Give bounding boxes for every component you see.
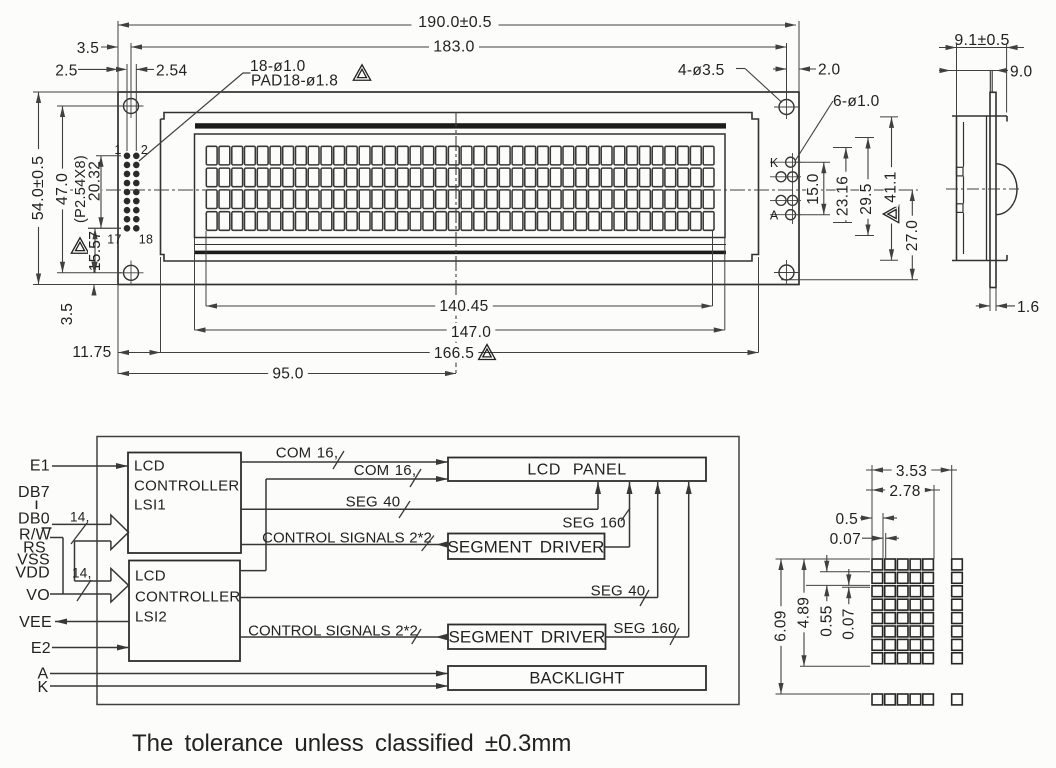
svg-text:6-ø1.0: 6-ø1.0 bbox=[833, 93, 880, 110]
svg-text:47.0: 47.0 bbox=[54, 173, 71, 205]
svg-text:CONTROL SIGNALS 2*2: CONTROL SIGNALS 2*2 bbox=[248, 622, 418, 639]
dim 183.0 bbox=[131, 46, 787, 48]
svg-text:LSI2: LSI2 bbox=[135, 608, 167, 625]
svg-text:DB7: DB7 bbox=[18, 484, 50, 501]
BACKLIGHT box bbox=[448, 666, 706, 690]
dim 2.54 bbox=[136, 67, 147, 72]
wire VEE bbox=[55, 621, 129, 623]
svg-text:29.5: 29.5 bbox=[858, 183, 875, 214]
dim 0.07 left bbox=[806, 584, 870, 586]
vertical centerline bbox=[455, 112, 457, 374]
svg-text:E2: E2 bbox=[31, 640, 51, 657]
bottom dark polarizer band bbox=[195, 244, 726, 246]
svg-text:K: K bbox=[38, 679, 49, 696]
svg-text:3.5: 3.5 bbox=[59, 303, 76, 325]
dim 41.1 with warning triangle bbox=[880, 116, 898, 118]
metal bezel outline with notched corners bbox=[161, 113, 759, 262]
dim 54.0+-0.5 bbox=[38, 92, 40, 285]
bus connector between LSI1 and LSI2 bbox=[74, 541, 76, 581]
side view centerline bbox=[946, 188, 1019, 190]
wire A bbox=[50, 673, 448, 675]
dim 47.0 bbox=[62, 106, 64, 273]
40x4 character grid bbox=[206, 146, 714, 230]
LCD controller LSI2 box bbox=[129, 561, 240, 662]
svg-text:18: 18 bbox=[139, 233, 154, 247]
svg-text:SEGMENT DRIVER: SEGMENT DRIVER bbox=[447, 538, 604, 557]
LCD PANEL box bbox=[448, 458, 706, 482]
dot matrix bottom cursor row bbox=[872, 559, 962, 705]
svg-text:DB0: DB0 bbox=[18, 511, 50, 528]
dim 23.16 bbox=[833, 147, 852, 149]
svg-text:17: 17 bbox=[107, 233, 122, 247]
wire SEG160 from segment driver 2 bbox=[606, 636, 689, 638]
svg-text:23.16: 23.16 bbox=[835, 176, 852, 216]
wire SEG160 from segment driver 1 bbox=[605, 546, 630, 548]
svg-text:LCD: LCD bbox=[134, 458, 165, 475]
svg-text:0.07: 0.07 bbox=[830, 531, 861, 548]
wire E1 bbox=[52, 465, 128, 467]
svg-text:0.5: 0.5 bbox=[836, 511, 858, 528]
svg-text:E1: E1 bbox=[30, 457, 50, 474]
dim 6.09 bbox=[776, 558, 871, 560]
dim 95.0 bbox=[118, 373, 456, 375]
svg-text:VDD: VDD bbox=[15, 565, 50, 582]
dim 15.0 bbox=[797, 161, 830, 163]
svg-text:1.6: 1.6 bbox=[1017, 299, 1039, 316]
side view backlight bump bbox=[996, 164, 1017, 215]
svg-text:2.5: 2.5 bbox=[55, 63, 77, 80]
leader line to pad label bbox=[139, 73, 251, 161]
PCB outline front view bbox=[118, 92, 799, 285]
svg-text:SEG 160: SEG 160 bbox=[613, 620, 676, 637]
svg-text:14,: 14, bbox=[70, 510, 90, 525]
svg-text:4-ø3.5: 4-ø3.5 bbox=[678, 62, 725, 79]
side view bezel flange bottom bbox=[952, 260, 1007, 262]
side view bezel front face with cutouts bbox=[956, 116, 958, 261]
svg-text:9.0: 9.0 bbox=[1010, 64, 1033, 81]
wire CONTROL SIGNALS 2*2 to segment driver 1 bbox=[241, 544, 448, 546]
svg-text:4.89: 4.89 bbox=[796, 597, 813, 628]
block diagram border bbox=[97, 437, 739, 705]
svg-text:15.0: 15.0 bbox=[805, 173, 822, 204]
top dark polarizer band bbox=[195, 123, 726, 128]
svg-text:K: K bbox=[770, 156, 779, 170]
dim 11.75 and 166.5 bbox=[118, 352, 759, 354]
bottom thick dark line bbox=[195, 251, 726, 255]
mounting hole top-right bbox=[779, 100, 794, 115]
mounting hole bottom-left bbox=[124, 265, 139, 280]
svg-text:140.45: 140.45 bbox=[439, 298, 488, 315]
wire K bbox=[50, 685, 448, 687]
side view pin stub bbox=[989, 71, 991, 93]
dim 2.78 bbox=[866, 489, 940, 491]
side view bezel back face bbox=[986, 116, 988, 261]
dim 1.6 bbox=[989, 288, 991, 312]
backlight pins K/A group bbox=[786, 157, 796, 167]
bus arrow 14 into LSI1 bbox=[52, 523, 111, 525]
svg-text:190.0±0.5: 190.0±0.5 bbox=[418, 14, 492, 31]
wire E2 bbox=[52, 647, 129, 649]
svg-text:9.1±0.5: 9.1±0.5 bbox=[954, 32, 1009, 49]
svg-text:0.55: 0.55 bbox=[818, 605, 835, 636]
svg-text:54.0±0.5: 54.0±0.5 bbox=[30, 156, 47, 221]
svg-text:VEE: VEE bbox=[19, 614, 52, 631]
svg-text:SEG 40: SEG 40 bbox=[591, 582, 646, 599]
mounting hole top-left bbox=[124, 99, 139, 114]
bus arrow 14 into LSI2 bbox=[75, 580, 111, 582]
dim 2.0 bbox=[773, 68, 787, 70]
svg-text:COM 16,: COM 16, bbox=[354, 462, 416, 479]
svg-text:2.54: 2.54 bbox=[156, 63, 187, 80]
warning triangle left bbox=[71, 238, 88, 254]
dim 4.89 bbox=[800, 665, 870, 667]
dim 140.45 bbox=[206, 305, 713, 307]
svg-text:CONTROLLER: CONTROLLER bbox=[134, 477, 240, 494]
18-pin header pads (2 cols x 9 rows) bbox=[124, 153, 140, 232]
svg-text:1: 1 bbox=[114, 143, 121, 157]
svg-text:COM 16,: COM 16, bbox=[276, 445, 338, 462]
display window opening bbox=[195, 134, 726, 238]
svg-text:LCD PANEL: LCD PANEL bbox=[527, 462, 626, 479]
dim 3.5 bottom-left bbox=[93, 262, 95, 273]
svg-text:14,: 14, bbox=[72, 566, 92, 581]
svg-text:3.5: 3.5 bbox=[77, 40, 99, 57]
svg-text:3.53: 3.53 bbox=[896, 463, 927, 480]
svg-text:SEGMENT DRIVER: SEGMENT DRIVER bbox=[448, 628, 605, 647]
mounting hole bottom-right bbox=[779, 265, 794, 280]
label (P2.54X8) bbox=[74, 149, 88, 228]
svg-text:CONTROLLER: CONTROLLER bbox=[135, 588, 241, 605]
svg-text:2.78: 2.78 bbox=[889, 483, 920, 500]
side view PCB edge bbox=[990, 92, 996, 287]
svg-text:2.0: 2.0 bbox=[818, 62, 841, 79]
svg-text:95.0: 95.0 bbox=[272, 366, 303, 383]
svg-text:SEG 160: SEG 160 bbox=[562, 515, 625, 532]
dim 147.0 bbox=[195, 329, 725, 331]
svg-text:166.5: 166.5 bbox=[434, 345, 474, 362]
svg-text:A: A bbox=[770, 209, 779, 223]
dim 190.0+-0.5 bbox=[118, 24, 796, 26]
wire SEG40 from LSI1 bbox=[241, 508, 598, 510]
dim 3.53 bbox=[866, 469, 957, 471]
wire R/W riser bbox=[50, 537, 63, 539]
SEGMENT DRIVER 2 box bbox=[448, 625, 606, 650]
svg-text:41.1: 41.1 bbox=[883, 171, 900, 202]
dim 29.5 bbox=[855, 137, 874, 139]
wire SEG40 from LSI2 bbox=[240, 597, 658, 599]
svg-text:147.0: 147.0 bbox=[451, 324, 491, 341]
dim 9.0 bbox=[939, 70, 1008, 72]
svg-text:LCD: LCD bbox=[135, 567, 166, 584]
side view bezel flange top bbox=[952, 115, 1007, 117]
svg-text:20.32: 20.32 bbox=[87, 161, 104, 201]
svg-text:PAD18-ø1.8: PAD18-ø1.8 bbox=[251, 73, 338, 90]
svg-text:The tolerance unless classifie: The tolerance unless classified ±0.3mm bbox=[132, 730, 571, 757]
side view glass inner lines bbox=[963, 122, 965, 167]
svg-text:LSI1: LSI1 bbox=[134, 496, 166, 513]
svg-text:SEG 40: SEG 40 bbox=[346, 494, 401, 511]
svg-text:CONTROL SIGNALS 2*2: CONTROL SIGNALS 2*2 bbox=[262, 530, 432, 547]
svg-text:183.0: 183.0 bbox=[433, 39, 475, 56]
svg-text:0.07: 0.07 bbox=[840, 608, 857, 639]
svg-text:6.09: 6.09 bbox=[773, 610, 790, 641]
svg-text:VO: VO bbox=[26, 587, 50, 604]
svg-text:BACKLIGHT: BACKLIGHT bbox=[529, 670, 624, 688]
LCD controller LSI1 box bbox=[128, 453, 241, 554]
wire COM16 from LSI2 to LCD panel bbox=[240, 570, 266, 572]
dim 27.0 bbox=[781, 279, 918, 281]
wire COM16 from LSI1 to LCD panel bbox=[241, 461, 448, 463]
dim 0.55 bbox=[820, 571, 870, 573]
horizontal centerline bbox=[58, 189, 918, 191]
dim 20.32 bbox=[88, 158, 103, 204]
svg-text:11.75: 11.75 bbox=[72, 344, 111, 361]
dim 15.57 bbox=[88, 231, 103, 270]
svg-text:27.0: 27.0 bbox=[904, 220, 921, 251]
wire CONTROL SIGNALS 2*2 to segment driver 2 bbox=[240, 636, 448, 638]
SEGMENT DRIVER 1 box bbox=[448, 534, 605, 560]
